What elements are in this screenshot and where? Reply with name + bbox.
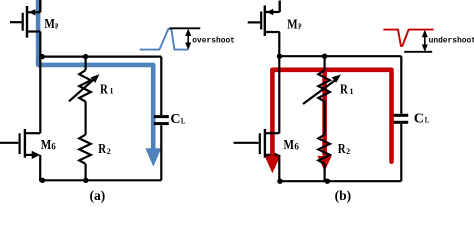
transistor MP (a) gate bar xyxy=(22,13,24,31)
svg-text:(b): (b) xyxy=(335,188,352,203)
arrowhead of red branch through R xyxy=(318,156,332,171)
wire: right edge lower segment (a) xyxy=(160,125,162,180)
resistor R2 (a) zigzag xyxy=(79,135,91,164)
wire: right edge upper segment (b) xyxy=(400,56,402,114)
overshoot measure double arrow xyxy=(185,29,191,51)
transistor MP (b) drain lead xyxy=(266,31,280,33)
capacitor CL (b) bottom plate xyxy=(394,121,409,124)
wire: right edge lower segment (b) xyxy=(400,124,402,181)
undershoot trough reference line xyxy=(404,51,432,53)
wire: red current path (CL up and through M6) xyxy=(272,70,391,162)
transistor M6 (a) source lead with arrow xyxy=(26,151,40,159)
wire: R2 bottom lead (a) xyxy=(84,164,86,181)
transistor MP (a) source lead with arrow xyxy=(28,9,40,15)
transistor M6 (a) gate bar xyxy=(19,133,21,154)
wire: top rail (a) xyxy=(39,55,161,57)
wire: blue current path (VDD through MP to CL) xyxy=(38,0,153,149)
wire: R1 top lead (b) xyxy=(324,56,326,70)
node junction dot top-left (b) xyxy=(277,54,282,59)
svg-text:M: M xyxy=(44,17,55,32)
svg-text:C: C xyxy=(414,111,424,126)
capacitor CL (b) top plate xyxy=(394,114,409,117)
svg-text:L: L xyxy=(425,116,429,125)
wire: MP (a) source stub to top xyxy=(39,0,41,12)
transistor M6 (b) source lead with arrow xyxy=(266,151,280,159)
svg-text:M: M xyxy=(287,18,298,33)
wire: bottom rail (b) xyxy=(278,180,401,182)
capacitor CL (a) bottom plate xyxy=(154,122,169,125)
svg-text:overshoot: overshoot xyxy=(192,36,235,45)
wire: R1 top lead (a) xyxy=(84,57,86,71)
wire: left column vertical MP drain to M6 drain (a) xyxy=(39,32,41,134)
svg-text:L: L xyxy=(181,116,185,125)
wire: red current branch through R1 R2 xyxy=(322,70,327,156)
resistor R1 (b) zigzag xyxy=(318,70,330,101)
arrowhead of red path through M6 xyxy=(265,156,281,173)
wire: R2 bottom lead (b) xyxy=(324,164,326,181)
transistor M6 (a) drain lead xyxy=(26,132,40,134)
svg-text:2: 2 xyxy=(346,147,350,156)
svg-text:M: M xyxy=(284,138,295,153)
node junction dot top of R1 (a) xyxy=(83,54,88,59)
svg-text:1: 1 xyxy=(350,87,354,96)
svg-text:P: P xyxy=(298,22,301,31)
wire: right edge upper segment (a) xyxy=(160,57,162,115)
svg-text:M: M xyxy=(41,138,52,153)
svg-text:P: P xyxy=(55,22,58,31)
transistor M6 (b) drain lead xyxy=(266,132,280,134)
svg-text:6: 6 xyxy=(51,142,56,152)
wire: left column vertical MP drain to M6 drain (b) xyxy=(278,32,280,133)
transistor MP (a) channel bar xyxy=(26,6,28,38)
svg-text:C: C xyxy=(170,112,180,127)
transistor MP (a) drain lead xyxy=(28,30,40,32)
undershoot measure double arrow xyxy=(422,30,428,52)
transistor M6 (b) gate bar xyxy=(259,133,261,154)
svg-text:R: R xyxy=(338,142,347,157)
svg-text:undershoot: undershoot xyxy=(429,37,474,46)
svg-text:R: R xyxy=(98,142,107,157)
node junction dot top of R1 (b) xyxy=(322,54,327,59)
svg-text:R: R xyxy=(340,82,349,97)
transistor M6 (b) channel bar xyxy=(264,129,266,158)
resistor R1 (a) variable arrow xyxy=(69,74,100,101)
wire: R1 to R2 connector (b) xyxy=(324,102,326,135)
transistor MP (b) source lead with arrow xyxy=(266,9,280,15)
transistor MP (b) channel bar xyxy=(264,6,266,37)
transistor M6 (b) gate lead xyxy=(234,142,259,144)
svg-text:(a): (a) xyxy=(90,188,106,203)
transistor MP (b) gate bar xyxy=(260,12,262,30)
wire: MP (b) source stub to top xyxy=(279,1,281,13)
resistor R1 (b) variable arrow xyxy=(303,75,341,105)
wire: top rail (b) xyxy=(278,55,401,57)
node dot bottom-left (a) xyxy=(40,178,45,183)
resistor R1 (a) zigzag xyxy=(79,70,91,101)
wire: R1 to R2 connector (a) xyxy=(84,102,86,135)
svg-text:1: 1 xyxy=(110,87,114,96)
arrowhead of blue current path xyxy=(145,148,161,166)
wire: M6 (b) source vertical xyxy=(278,155,280,181)
overshoot peak reference line xyxy=(169,27,200,29)
node dot bottom of R2 (a) xyxy=(83,178,88,183)
transistor M6 (a) gate lead xyxy=(0,142,18,144)
wire: bottom rail (a) xyxy=(39,179,161,181)
transistor MP (b) gate lead xyxy=(248,21,260,23)
node dot bottom of R2 (b) xyxy=(325,179,330,184)
capacitor CL (a) top plate xyxy=(154,115,169,118)
node junction dot top-left (a) xyxy=(40,54,45,59)
wire: M6 (a) source vertical xyxy=(39,155,41,180)
undershoot waveform (red) xyxy=(383,30,433,46)
svg-text:R: R xyxy=(100,82,109,97)
svg-text:6: 6 xyxy=(294,142,299,152)
transistor M6 (a) channel bar xyxy=(24,129,26,158)
node dot bottom-left (b) xyxy=(277,179,282,184)
overshoot waveform (blue) xyxy=(140,29,189,50)
transistor MP (a) gate lead xyxy=(10,21,22,23)
resistor R2 (b) zigzag xyxy=(318,135,330,164)
svg-text:2: 2 xyxy=(107,147,111,156)
